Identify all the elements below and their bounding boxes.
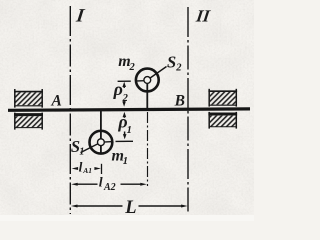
svg-text:A: A [51, 93, 62, 110]
svg-text:l: l [79, 160, 83, 175]
svg-text:2: 2 [175, 63, 182, 74]
svg-text:1: 1 [79, 147, 84, 158]
svg-text:A1: A1 [82, 166, 92, 175]
svg-text:l: l [99, 176, 103, 191]
svg-text:1: 1 [127, 125, 132, 136]
svg-text:L: L [124, 198, 136, 218]
svg-text:ρ: ρ [113, 79, 123, 99]
svg-text:S: S [167, 53, 176, 72]
svg-text:B: B [174, 93, 185, 110]
svg-text:A2: A2 [103, 182, 116, 193]
svg-text:1: 1 [123, 156, 128, 167]
svg-text:2: 2 [122, 93, 129, 104]
svg-text:2: 2 [129, 62, 136, 73]
